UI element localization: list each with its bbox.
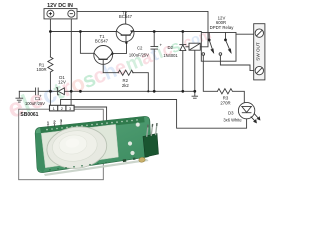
svg-text:100uF/25V: 100uF/25V: [129, 53, 149, 58]
svg-text:12V DC IN: 12V DC IN: [47, 3, 73, 9]
svg-text:1N4001: 1N4001: [163, 53, 178, 58]
svg-text:D2: D2: [167, 45, 173, 50]
svg-text:SB0061: SB0061: [20, 112, 38, 118]
svg-text:100uF/25V: 100uF/25V: [25, 101, 45, 106]
svg-text:BC547: BC547: [119, 14, 133, 19]
svg-text:BC547: BC547: [95, 38, 109, 43]
svg-text:+: +: [39, 94, 42, 99]
svg-text:3x6 White: 3x6 White: [223, 118, 242, 123]
svg-text:270R: 270R: [220, 101, 230, 106]
svg-text:DPDT Relay: DPDT Relay: [210, 25, 235, 30]
svg-text:C2: C2: [137, 46, 143, 51]
svg-text:D3: D3: [228, 111, 234, 116]
svg-text:100R: 100R: [36, 67, 46, 72]
svg-text:+: +: [159, 42, 162, 47]
svg-text:SW OUT: SW OUT: [255, 42, 260, 61]
svg-text:2k2: 2k2: [122, 83, 130, 88]
svg-text:12V: 12V: [58, 79, 66, 84]
